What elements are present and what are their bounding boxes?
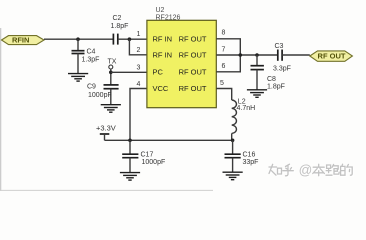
wire C2 to pin 1: [118, 38, 147, 40]
inductor L2: [232, 98, 255, 140]
wire pin 5 to L2: [216, 89, 231, 101]
svg-text:7: 7: [222, 47, 226, 54]
node A junction: [76, 37, 80, 41]
capacitor C4: [72, 39, 100, 73]
svg-text:1.8pF: 1.8pF: [267, 84, 285, 91]
svg-text:RFIN: RFIN: [12, 36, 30, 45]
wire node B to pin 2: [129, 39, 147, 55]
svg-text:1.3pF: 1.3pF: [82, 56, 100, 63]
svg-text:1000pF: 1000pF: [142, 159, 166, 166]
svg-text:RF IN: RF IN: [153, 35, 173, 44]
svg-text:4.7nH: 4.7nH: [237, 105, 256, 112]
svg-text:C2: C2: [113, 15, 122, 22]
svg-text:5: 5: [220, 80, 224, 87]
wire C3 to RF OUT: [282, 54, 310, 56]
svg-text:@: @: [299, 162, 313, 177]
svg-text:C3: C3: [275, 43, 284, 50]
svg-text:C8: C8: [267, 76, 276, 83]
svg-text:RF OUT: RF OUT: [318, 52, 346, 61]
net label RFIN: [2, 36, 45, 45]
ground (C9): [101, 105, 121, 113]
net label RF OUT: [310, 51, 353, 61]
wire pin 4 to rail: [130, 89, 147, 141]
scan edge artifact bottom: [0, 189, 213, 191]
capacitor C16: [225, 140, 259, 172]
svg-text:6: 6: [222, 63, 226, 70]
scan edge artifact left: [0, 28, 2, 191]
capacitor C3: [273, 43, 291, 73]
TX node: [108, 59, 117, 85]
node C junction: [109, 71, 113, 75]
node B junction: [128, 37, 132, 41]
svg-text:RF IN: RF IN: [153, 51, 173, 60]
svg-text:4: 4: [137, 81, 141, 88]
svg-text:C17: C17: [141, 152, 154, 159]
capacitor C9: [87, 83, 119, 104]
svg-text:3.3pF: 3.3pF: [273, 66, 291, 73]
ground (C16): [223, 172, 243, 180]
ground (C8): [247, 90, 267, 98]
svg-text:RF OUT: RF OUT: [179, 51, 207, 60]
svg-text:1000pF: 1000pF: [88, 92, 112, 99]
op IC U2 RF2126: [147, 7, 216, 108]
ground (C17): [120, 173, 140, 181]
ground (C4): [68, 74, 88, 82]
node F junction: [128, 139, 132, 143]
svg-text:PC: PC: [153, 68, 164, 77]
svg-text:U2: U2: [156, 7, 165, 14]
svg-text:8: 8: [222, 30, 226, 37]
svg-text:1: 1: [137, 31, 141, 38]
wire node C to pin 3: [111, 71, 147, 73]
svg-text:1.8pF: 1.8pF: [111, 23, 129, 30]
capacitor C8: [251, 55, 285, 91]
svg-text:TX: TX: [108, 59, 117, 66]
svg-text:C16: C16: [243, 152, 256, 159]
svg-text:RF OUT: RF OUT: [179, 68, 207, 77]
svg-text:+3.3V: +3.3V: [96, 124, 116, 133]
svg-text:C4: C4: [87, 49, 96, 56]
watermark zhihu: [269, 162, 353, 178]
capacitor C2: [111, 15, 129, 45]
wire pin 7 output: [216, 54, 277, 56]
svg-text:2: 2: [137, 47, 141, 54]
node G junction: [231, 139, 235, 143]
wire RFIN to node A: [44, 38, 114, 40]
node E junction: [255, 53, 259, 57]
svg-text:RF OUT: RF OUT: [179, 84, 207, 93]
svg-text:RF OUT: RF OUT: [179, 35, 207, 44]
wire pin 8: [216, 39, 240, 55]
wire power rail: [105, 139, 233, 141]
svg-text:C9: C9: [87, 83, 96, 90]
node D junction: [239, 53, 243, 57]
svg-text:3: 3: [137, 65, 141, 72]
wire pin 6: [216, 55, 240, 72]
svg-text:33pF: 33pF: [243, 159, 259, 166]
+3.3V supply: [96, 124, 116, 141]
svg-text:VCC: VCC: [153, 84, 169, 93]
capacitor C17: [122, 140, 165, 172]
